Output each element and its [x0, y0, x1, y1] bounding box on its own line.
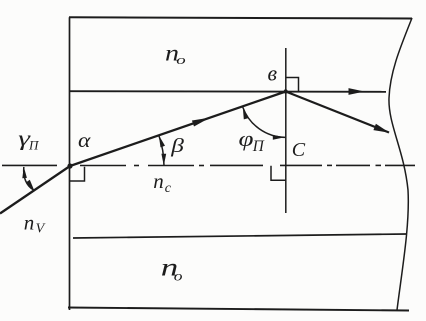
svg-text:c: c — [165, 181, 172, 196]
beta arc upper arrowhead — [159, 135, 165, 147]
beta arc lower arrowhead — [161, 154, 166, 166]
gamma arc upper arrowhead — [22, 167, 27, 179]
svg-text:в: в — [268, 61, 278, 86]
arc of angle phi — [243, 107, 285, 137]
arc of angle gamma — [24, 167, 34, 190]
top boundary line of upper cladding — [69, 17, 412, 18]
svg-text:V: V — [36, 222, 46, 237]
right-angle mark at entry point — [70, 167, 85, 181]
svg-text:o: o — [174, 269, 183, 284]
wavy torn right edge — [389, 18, 412, 310]
entry point junction dot — [67, 163, 72, 168]
core upper interface line — [69, 90, 386, 93]
bottom boundary line of lower cladding — [68, 308, 409, 311]
core lower interface line — [73, 234, 407, 238]
gamma arc lower arrowhead — [26, 180, 34, 191]
svg-text:o: o — [176, 53, 185, 67]
optical axis (dash-dot center line) — [2, 164, 415, 166]
arrowhead on refracted ray — [192, 118, 210, 127]
svg-text:П: П — [28, 138, 40, 153]
right-angle mark at B — [286, 78, 299, 92]
svg-text:П: П — [252, 138, 265, 155]
svg-text:α: α — [78, 128, 92, 152]
fiber end face (left edge of slab) — [69, 17, 71, 310]
svg-text:n: n — [153, 169, 164, 193]
point B junction dot — [284, 89, 288, 93]
incident ray outside fiber — [0, 166, 70, 214]
arrowhead on reflected ray — [373, 124, 389, 133]
phi arc right arrowhead — [273, 135, 285, 140]
phi arc upper arrowhead — [243, 107, 249, 119]
svg-text:C: C — [292, 139, 306, 161]
refracted ray in core — [70, 92, 286, 167]
svg-text:β: β — [170, 135, 185, 157]
svg-text:n: n — [24, 210, 35, 234]
svg-text:φ: φ — [239, 127, 254, 151]
right-angle mark at C — [271, 166, 286, 181]
normal line BC through point B — [285, 48, 287, 213]
arc of angle beta — [159, 135, 164, 166]
reflected ray — [286, 92, 389, 133]
ray along interface (critical refraction) arrowhead — [349, 88, 365, 95]
